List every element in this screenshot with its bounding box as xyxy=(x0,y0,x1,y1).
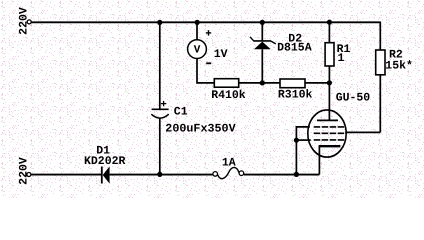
svg-text:R410k: R410k xyxy=(211,89,246,102)
svg-text:220V: 220V xyxy=(18,7,31,35)
fuse FU1 1A xyxy=(213,156,244,178)
capacitor C1 xyxy=(151,101,235,135)
wire mid bus R410k to R310k xyxy=(239,82,280,84)
svg-text:GU-50: GU-50 xyxy=(336,91,371,104)
resistor R310k xyxy=(278,79,313,102)
node dot: grid3 junction xyxy=(294,138,299,143)
wire C1 column lower xyxy=(159,118,161,175)
tube grid g1 xyxy=(314,126,345,128)
wire D2 column top xyxy=(261,22,263,40)
wire mid bus R310k to R1 column xyxy=(305,82,329,84)
wire bottom bus fuse to cathode xyxy=(244,174,320,176)
terminal 220V top-left xyxy=(18,7,32,35)
wire top bus xyxy=(31,21,380,23)
wire C1 column upper xyxy=(159,22,161,108)
svg-text:C1: C1 xyxy=(174,105,188,118)
node dot: R1 bottom junction xyxy=(327,80,332,85)
tube cathode xyxy=(319,146,341,174)
svg-text:1: 1 xyxy=(338,52,345,65)
svg-text:220V: 220V xyxy=(18,157,31,185)
svg-text:V: V xyxy=(194,45,201,57)
svg-text:KD202R: KD202R xyxy=(84,155,126,168)
tube grid g3 xyxy=(314,139,345,141)
wire voltmeter column top xyxy=(196,22,198,40)
wire tube left column xyxy=(296,127,310,174)
tube GU-50 envelope xyxy=(308,91,371,157)
tube grid g2 xyxy=(314,132,345,134)
voltmeter V1 xyxy=(188,30,228,63)
svg-text:D815A: D815A xyxy=(277,41,312,54)
node dot: tube left bottom xyxy=(294,172,299,177)
wire bottom bus left xyxy=(31,174,101,176)
node dot: D2 top xyxy=(260,20,265,25)
node dot: R1 top xyxy=(327,20,332,25)
svg-text:15k*: 15k* xyxy=(385,60,413,73)
svg-text:1V: 1V xyxy=(214,48,228,61)
node dot: D2 bottom xyxy=(260,80,265,85)
wire D2 column bottom xyxy=(261,49,263,83)
resistor R2 xyxy=(376,48,413,75)
diode D1 xyxy=(84,144,126,183)
wire R1 column to tube anode xyxy=(328,66,330,120)
wire R2 column top xyxy=(379,22,381,51)
resistor R1 xyxy=(325,43,350,66)
svg-text:200uFx350V: 200uFx350V xyxy=(165,122,235,135)
resistor R410k xyxy=(211,79,246,102)
wire R2 column bottom xyxy=(379,75,381,133)
svg-text:R310k: R310k xyxy=(278,89,313,102)
node dot: C1 top xyxy=(157,20,162,25)
zener diode D2 xyxy=(250,32,312,54)
tube anode plate xyxy=(317,119,338,121)
node dot: voltmeter top xyxy=(195,20,200,25)
wire voltmeter bottom to mid bus xyxy=(197,59,214,83)
wire R1 column top xyxy=(328,22,330,43)
svg-text:1A: 1A xyxy=(222,156,236,169)
wire bottom bus D1 to fuse xyxy=(110,174,213,176)
node dot: C1 bottom xyxy=(157,172,162,177)
wire from R2 bottom to tube grid2 xyxy=(345,131,380,133)
terminal 220V bottom-left xyxy=(18,157,31,185)
